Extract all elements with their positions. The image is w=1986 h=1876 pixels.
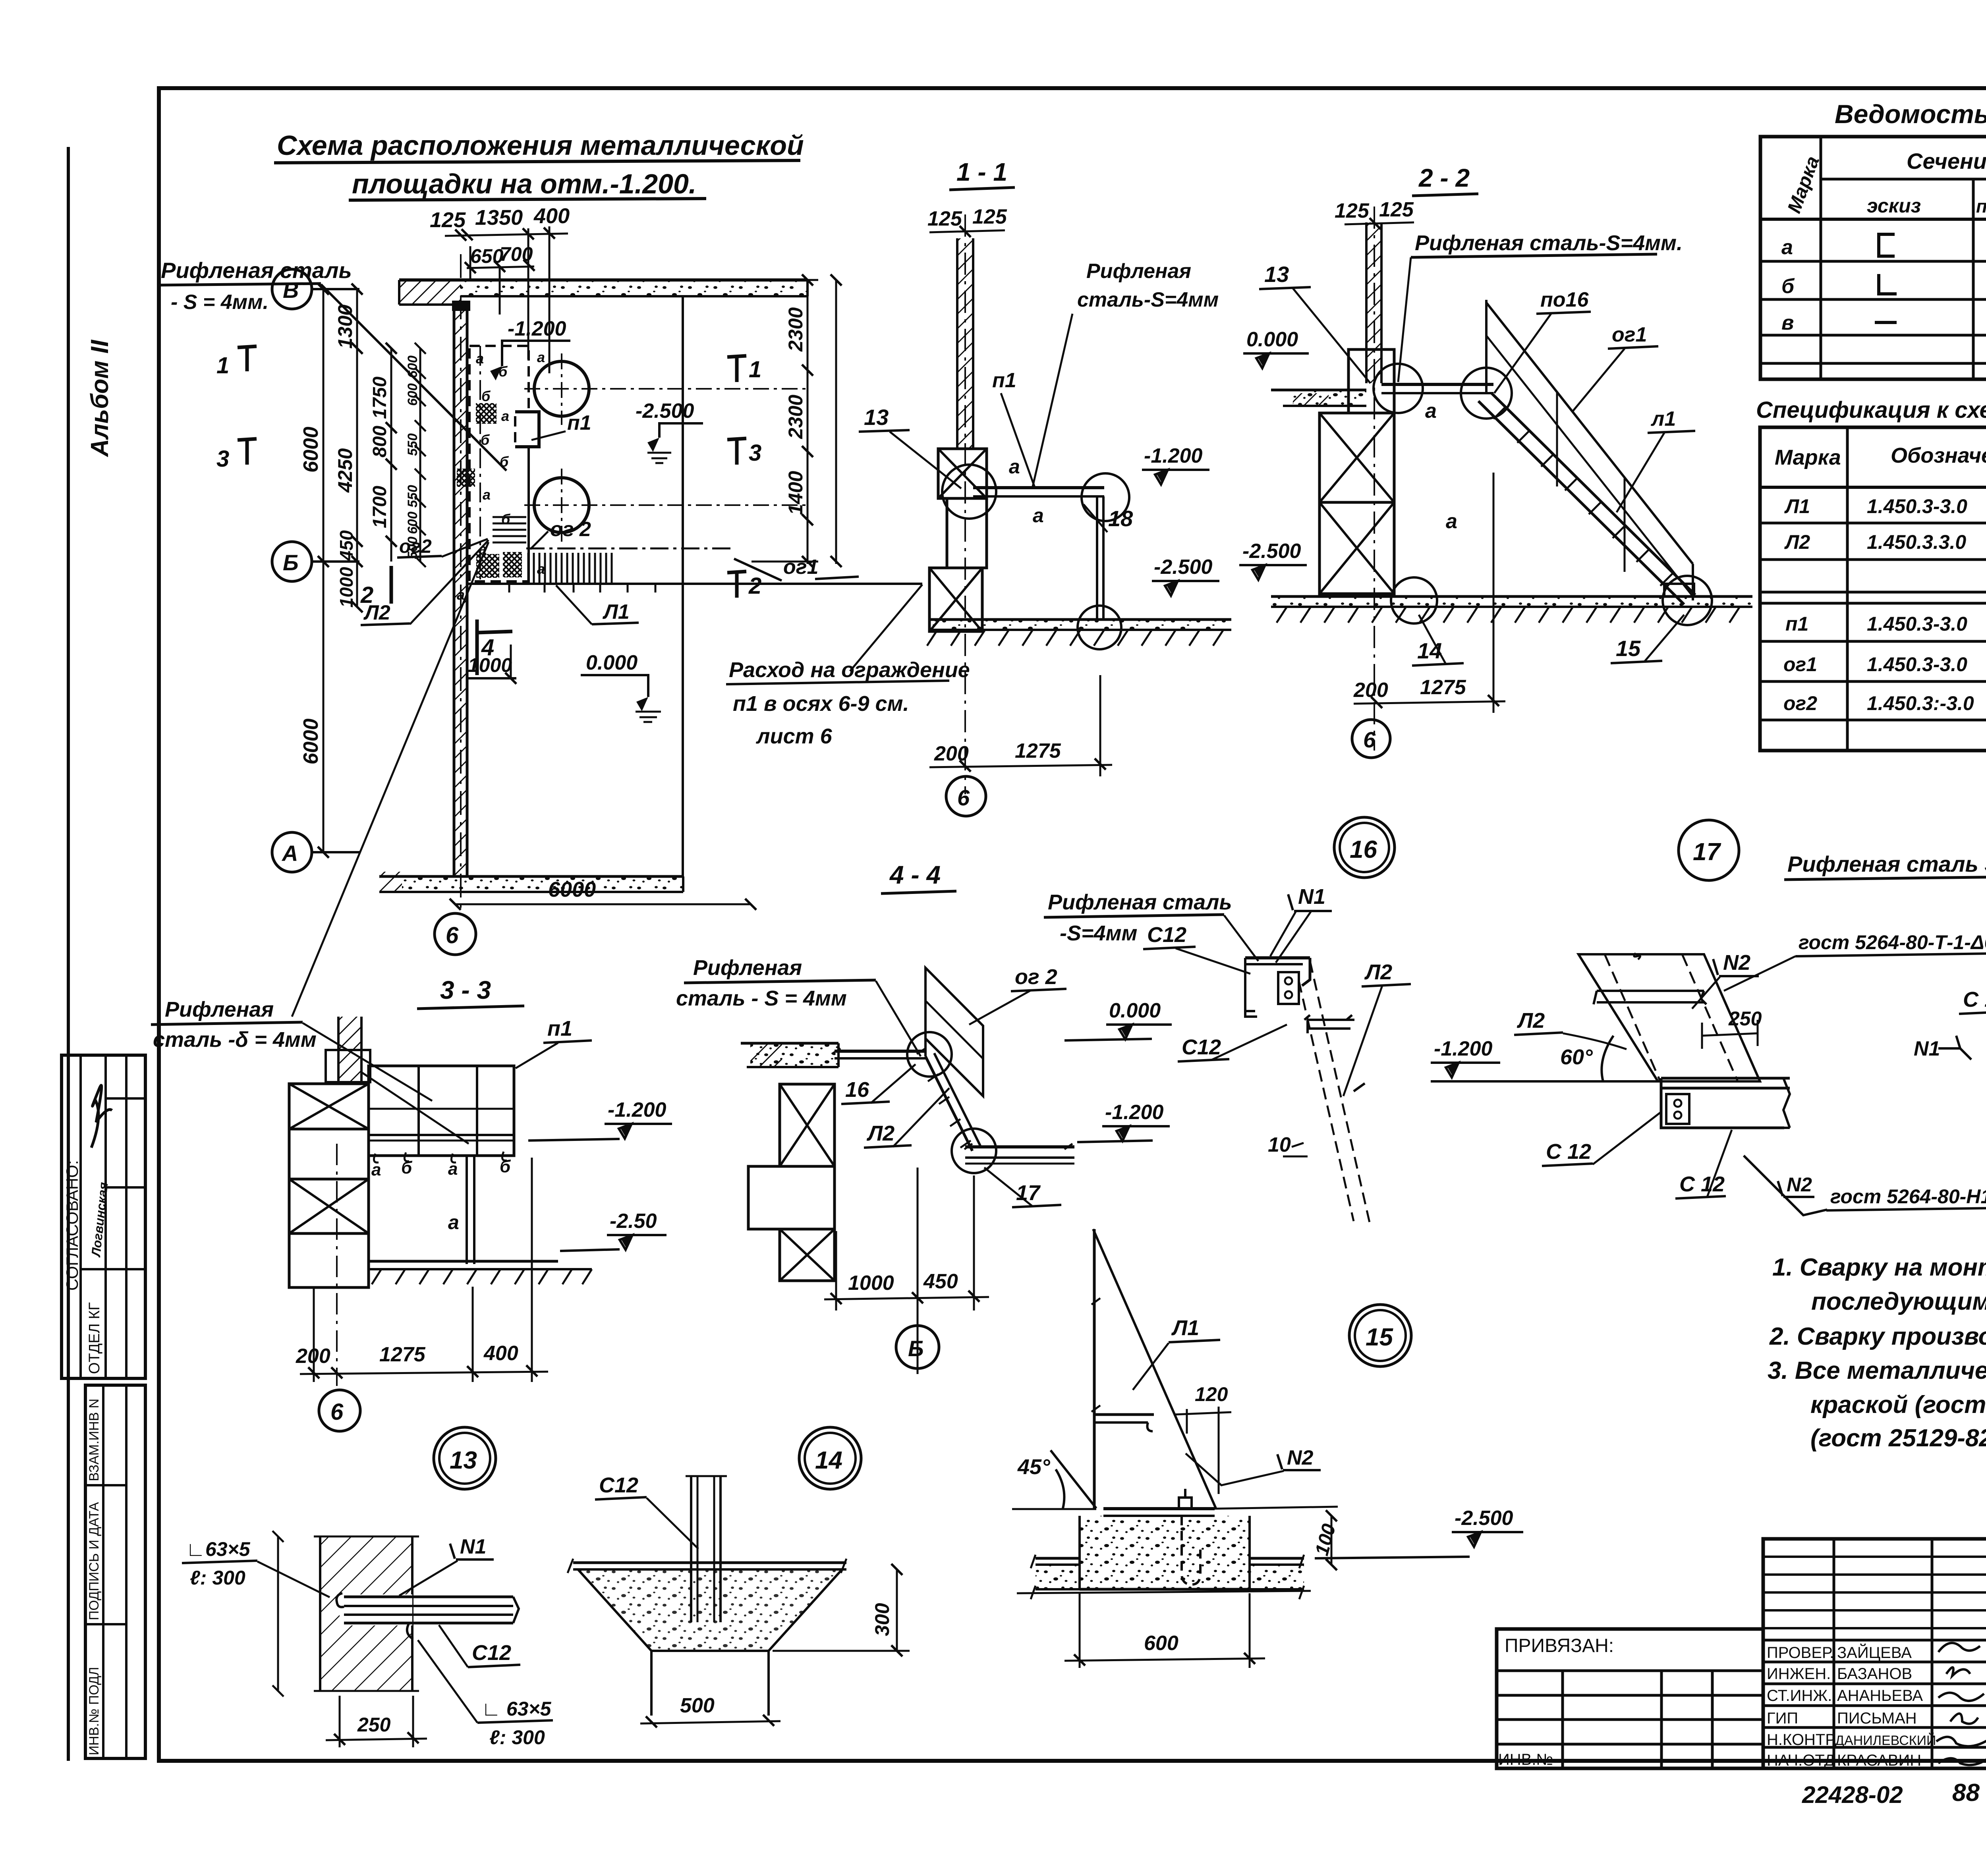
svg-text:а: а: [1033, 504, 1044, 527]
svg-text:1.450.3.3.0: 1.450.3.3.0: [1867, 531, 1966, 553]
svg-text:Расход на ограждение: Расход на ограждение: [729, 658, 970, 682]
svg-text:в: в: [1781, 311, 1794, 334]
svg-text:Н.КОНТР.: Н.КОНТР.: [1767, 1731, 1837, 1749]
svg-text:п1: п1: [992, 369, 1016, 392]
svg-text:125: 125: [927, 207, 962, 230]
svg-text:С12: С12: [1182, 1035, 1221, 1059]
svg-text:ПРИВЯЗАН:: ПРИВЯЗАН:: [1505, 1635, 1614, 1656]
svg-text:45°: 45°: [1017, 1455, 1050, 1479]
svg-text:лист 6: лист 6: [755, 724, 833, 748]
svg-text:сталь-S=4мм: сталь-S=4мм: [1077, 288, 1219, 311]
svg-text:КРАСАВИН: КРАСАВИН: [1837, 1752, 1921, 1769]
svg-text:Ведомость элементов.: Ведомость элементов.: [1835, 99, 1986, 129]
svg-text:-1.200: -1.200: [1144, 444, 1203, 467]
svg-text:гост 5264-80-Н1-Δ 6: гост 5264-80-Н1-Δ 6: [1830, 1185, 1986, 1208]
svg-text:ог1: ог1: [1612, 323, 1647, 346]
svg-text:6000: 6000: [299, 718, 323, 764]
svg-text:СОГЛАСОВАНО:: СОГЛАСОВАНО:: [63, 1160, 81, 1291]
svg-text:Л2: Л2: [1784, 531, 1810, 553]
svg-text:550: 550: [405, 485, 420, 508]
svg-text:А: А: [281, 841, 298, 866]
svg-text:1000: 1000: [848, 1272, 894, 1295]
svg-text:125: 125: [430, 208, 466, 232]
svg-text:1.450.3:-3.0: 1.450.3:-3.0: [1867, 692, 1974, 714]
svg-text:1 - 1: 1 - 1: [956, 158, 1007, 186]
svg-text:С 12: С 12: [1679, 1172, 1725, 1196]
svg-text:∟63×5: ∟63×5: [186, 1538, 251, 1560]
svg-text:13: 13: [450, 1447, 477, 1474]
svg-text:-2.500: -2.500: [1455, 1507, 1513, 1530]
svg-text:2: 2: [748, 573, 761, 599]
svg-text:1.450.3-3.0: 1.450.3-3.0: [1867, 653, 1967, 676]
svg-text:ВЗАМ.ИНВ N: ВЗАМ.ИНВ N: [87, 1399, 102, 1481]
svg-text:а: а: [1446, 510, 1457, 533]
svg-text:10: 10: [1268, 1133, 1291, 1156]
svg-text:п1: п1: [1785, 613, 1808, 635]
svg-text:125: 125: [1379, 198, 1414, 221]
svg-text:200: 200: [296, 1345, 330, 1368]
svg-text:С12: С12: [1147, 923, 1186, 947]
svg-text:1350: 1350: [475, 206, 523, 230]
svg-text:б: б: [501, 511, 511, 527]
svg-text:Обозначение: Обозначение: [1891, 444, 1986, 467]
svg-text:а: а: [537, 349, 545, 365]
svg-text:а: а: [476, 350, 484, 367]
svg-text:п1: п1: [567, 411, 591, 434]
svg-text:С12: С12: [472, 1641, 511, 1665]
svg-text:-1.200: -1.200: [1434, 1037, 1493, 1060]
svg-text:ДАНИЛЕВСКИЙ: ДАНИЛЕВСКИЙ: [1835, 1733, 1936, 1748]
svg-text:1275: 1275: [379, 1343, 426, 1366]
svg-text:4250: 4250: [334, 448, 356, 493]
svg-text:а: а: [1009, 455, 1020, 478]
svg-text:последующим восстановлением за: последующим восстановлением защитного по…: [1811, 1288, 1986, 1315]
svg-text:0.000: 0.000: [1109, 999, 1161, 1022]
svg-text:1: 1: [749, 357, 761, 382]
svg-text:Сечение: Сечение: [1907, 149, 1986, 174]
svg-text:6000: 6000: [299, 427, 323, 473]
svg-text:500: 500: [680, 1694, 715, 1717]
svg-text:б: б: [481, 432, 490, 448]
svg-text:Рифленая сталь: Рифленая сталь: [1048, 890, 1232, 914]
svg-text:Л1: Л1: [602, 600, 630, 623]
svg-text:б: б: [1781, 275, 1795, 298]
svg-text:а: а: [448, 1211, 459, 1233]
svg-text:ИНЖЕН.: ИНЖЕН.: [1767, 1665, 1831, 1683]
svg-text:16: 16: [1350, 836, 1377, 863]
svg-text:15: 15: [1366, 1324, 1393, 1351]
svg-text:200: 200: [934, 742, 969, 765]
svg-text:600: 600: [1144, 1632, 1178, 1655]
svg-text:а: а: [483, 486, 491, 503]
svg-text:Л1: Л1: [1784, 495, 1810, 517]
svg-text:N1: N1: [460, 1535, 486, 1558]
svg-text:а: а: [1425, 400, 1437, 423]
svg-text:сталь -δ = 4мм: сталь -δ = 4мм: [153, 1028, 317, 1052]
svg-text:N2: N2: [1723, 951, 1750, 975]
svg-text:Л2: Л2: [363, 601, 390, 624]
svg-text:НАЧ.ОТД: НАЧ.ОТД: [1767, 1752, 1835, 1769]
svg-text:С12: С12: [599, 1473, 638, 1497]
svg-text:120: 120: [1195, 1383, 1228, 1405]
svg-text:1300: 1300: [334, 305, 356, 349]
svg-text:N1: N1: [1914, 1037, 1940, 1060]
svg-text:17: 17: [1016, 1181, 1041, 1205]
svg-text:ПИСЬМАН: ПИСЬМАН: [1837, 1710, 1917, 1727]
svg-text:Спецификация к схеме расположе: Спецификация к схеме расположения металл…: [1756, 397, 1986, 423]
svg-text:п1 в осях 6-9 см.: п1 в осях 6-9 см.: [733, 692, 909, 716]
svg-text:125: 125: [1335, 199, 1370, 222]
svg-text:450: 450: [923, 1270, 958, 1293]
svg-text:Марка: Марка: [1775, 446, 1841, 469]
svg-text:по16: по16: [1540, 288, 1589, 311]
svg-text:ОТДЕЛ КГ: ОТДЕЛ КГ: [86, 1302, 103, 1374]
svg-text:2300: 2300: [784, 307, 807, 352]
svg-text:4 - 4: 4 - 4: [889, 861, 941, 889]
svg-text:6: 6: [446, 923, 459, 948]
svg-text:Рифленая: Рифленая: [165, 998, 274, 1021]
svg-text:3: 3: [749, 440, 761, 466]
svg-text:-S=4мм: -S=4мм: [1060, 921, 1137, 945]
svg-text:-2.500: -2.500: [636, 400, 694, 423]
svg-text:15: 15: [1616, 636, 1641, 661]
svg-text:6000: 6000: [548, 878, 596, 901]
svg-text:Рифленая сталь: Рифленая сталь: [161, 258, 352, 283]
svg-text:18: 18: [1108, 506, 1133, 531]
svg-text:-2.500: -2.500: [1242, 540, 1301, 563]
svg-text:2 - 2: 2 - 2: [1418, 164, 1470, 192]
svg-text:1. Сварку на монтаже осуществл: 1. Сварку на монтаже осуществлять по гос…: [1772, 1254, 1986, 1281]
svg-text:16: 16: [845, 1078, 869, 1102]
svg-text:1.450.3-3.0: 1.450.3-3.0: [1867, 613, 1967, 635]
svg-text:б: б: [500, 454, 509, 470]
svg-text:(гост 25129-82).: (гост 25129-82).: [1810, 1424, 1986, 1452]
svg-text:1400: 1400: [784, 471, 807, 515]
svg-text:Рифленая сталь-S=4мм.: Рифленая сталь-S=4мм.: [1415, 231, 1683, 255]
svg-text:Рифленая сталь S=4мм: Рифленая сталь S=4мм: [1787, 851, 1986, 876]
svg-text:400: 400: [533, 204, 570, 228]
svg-text:ог1: ог1: [783, 556, 818, 579]
svg-text:13: 13: [864, 405, 889, 430]
svg-text:1275: 1275: [1015, 739, 1061, 762]
svg-text:200: 200: [1353, 679, 1388, 702]
svg-text:3: 3: [216, 446, 229, 472]
svg-text:2. Сварку производить электро: 2. Сварку производить электродами Э 42 п…: [1769, 1323, 1986, 1350]
svg-text:БАЗАНОВ: БАЗАНОВ: [1837, 1665, 1912, 1683]
svg-text:С 12: С 12: [1546, 1140, 1591, 1164]
svg-text:700: 700: [500, 243, 533, 265]
svg-text:ог 2: ог 2: [550, 518, 591, 541]
svg-text:N2: N2: [1787, 1173, 1812, 1196]
svg-text:Б: Б: [283, 550, 299, 575]
svg-text:-2.50: -2.50: [610, 1210, 657, 1233]
svg-text:Л2: Л2: [866, 1121, 894, 1145]
svg-text:60°: 60°: [1560, 1045, 1593, 1069]
svg-text:3. Все металлические конструкц: 3. Все металлические конструкции окрасит…: [1768, 1357, 1986, 1384]
svg-text:площадки на отм.-1.200.: площадки на отм.-1.200.: [352, 168, 696, 199]
svg-text:600: 600: [405, 383, 420, 406]
svg-text:14: 14: [815, 1447, 842, 1474]
svg-text:л1: л1: [1650, 407, 1676, 430]
svg-text:0.000: 0.000: [1246, 328, 1298, 351]
svg-text:АНАНЬЕВА: АНАНЬЕВА: [1837, 1687, 1923, 1704]
svg-text:22428-02: 22428-02: [1802, 1781, 1903, 1808]
svg-text:-1.200: -1.200: [508, 317, 566, 340]
svg-text:ПРОВЕР.: ПРОВЕР.: [1767, 1644, 1834, 1662]
svg-text:125: 125: [972, 205, 1007, 228]
svg-text:ог 2: ог 2: [1015, 965, 1057, 989]
svg-text:N1: N1: [1298, 885, 1325, 909]
svg-text:гост 5264-80-Т-1-Δ6: гост 5264-80-Т-1-Δ6: [1799, 931, 1986, 953]
svg-text:Л2: Л2: [1364, 960, 1392, 984]
svg-text:б: б: [481, 388, 491, 404]
svg-text:1750: 1750: [369, 376, 390, 419]
svg-text:Б: Б: [908, 1336, 924, 1361]
svg-text:2300: 2300: [784, 395, 807, 439]
svg-text:600: 600: [405, 511, 420, 534]
svg-text:ℓ: 300: ℓ: 300: [489, 1726, 545, 1749]
svg-text:Рифленая: Рифленая: [1086, 260, 1191, 283]
svg-text:∟ 63×5: ∟ 63×5: [481, 1698, 552, 1720]
svg-text:6: 6: [957, 785, 970, 810]
svg-text:550: 550: [405, 433, 420, 456]
svg-text:-1.200: -1.200: [608, 1098, 667, 1121]
svg-text:сталь - S = 4мм: сталь - S = 4мм: [676, 986, 847, 1010]
svg-text:Л2: Л2: [1517, 1009, 1545, 1033]
svg-text:88: 88: [1952, 1779, 1980, 1807]
svg-text:1: 1: [216, 353, 229, 378]
svg-text:1700: 1700: [369, 486, 390, 528]
svg-text:ГИП: ГИП: [1767, 1710, 1798, 1727]
svg-text:- S = 4мм.: - S = 4мм.: [171, 291, 269, 314]
svg-text:а: а: [1781, 236, 1793, 259]
svg-text:ЗАЙЦЕВА: ЗАЙЦЕВА: [1837, 1643, 1912, 1662]
svg-text:поз.: поз.: [1976, 196, 1986, 216]
svg-text:ℓ: 300: ℓ: 300: [190, 1567, 245, 1589]
svg-text:а: а: [501, 408, 509, 424]
svg-text:п1: п1: [547, 1017, 572, 1040]
svg-text:краской (гост 8292-85) за 2 ра: краской (гост 8292-85) за 2 раза по грун…: [1810, 1391, 1986, 1419]
svg-text:ПОДПИСЬ И ДАТА: ПОДПИСЬ И ДАТА: [87, 1502, 102, 1620]
svg-text:6: 6: [330, 1399, 344, 1425]
svg-text:250: 250: [357, 1714, 391, 1736]
svg-text:Рифленая: Рифленая: [693, 956, 802, 980]
svg-text:-1.200: -1.200: [1105, 1101, 1164, 1124]
svg-text:400: 400: [483, 1342, 518, 1365]
svg-text:Л1: Л1: [1171, 1316, 1199, 1340]
svg-text:эскиз: эскиз: [1867, 195, 1921, 217]
svg-text:ог2: ог2: [1783, 692, 1817, 714]
svg-text:0.000: 0.000: [586, 651, 638, 674]
svg-text:13: 13: [1264, 262, 1289, 287]
svg-text:1.450.3-3.0: 1.450.3-3.0: [1867, 495, 1967, 517]
svg-text:17: 17: [1693, 838, 1721, 866]
svg-text:Схема расположения металлическ: Схема расположения металлической: [277, 130, 804, 161]
svg-text:СТ.ИНЖ.: СТ.ИНЖ.: [1767, 1687, 1832, 1704]
svg-text:а: а: [537, 561, 545, 577]
svg-text:Альбом II: Альбом II: [86, 339, 114, 457]
svg-text:600: 600: [405, 355, 420, 378]
svg-text:1000: 1000: [336, 567, 357, 608]
svg-text:3 - 3: 3 - 3: [440, 976, 491, 1004]
svg-text:300: 300: [871, 1603, 893, 1636]
svg-text:ог1: ог1: [1783, 653, 1817, 676]
svg-text:N2: N2: [1287, 1446, 1314, 1469]
svg-text:С 12: С 12: [1963, 988, 1986, 1011]
svg-text:1275: 1275: [1420, 676, 1466, 699]
svg-text:ог2: ог2: [399, 536, 432, 557]
svg-text:450: 450: [336, 530, 357, 561]
svg-text:6: 6: [1363, 727, 1376, 752]
svg-text:ИНВ.№: ИНВ.№: [1498, 1751, 1553, 1768]
svg-text:800: 800: [369, 426, 390, 457]
svg-text:-2.500: -2.500: [1154, 556, 1213, 579]
svg-text:ИНВ.№ ПОДЛ: ИНВ.№ ПОДЛ: [87, 1667, 102, 1755]
